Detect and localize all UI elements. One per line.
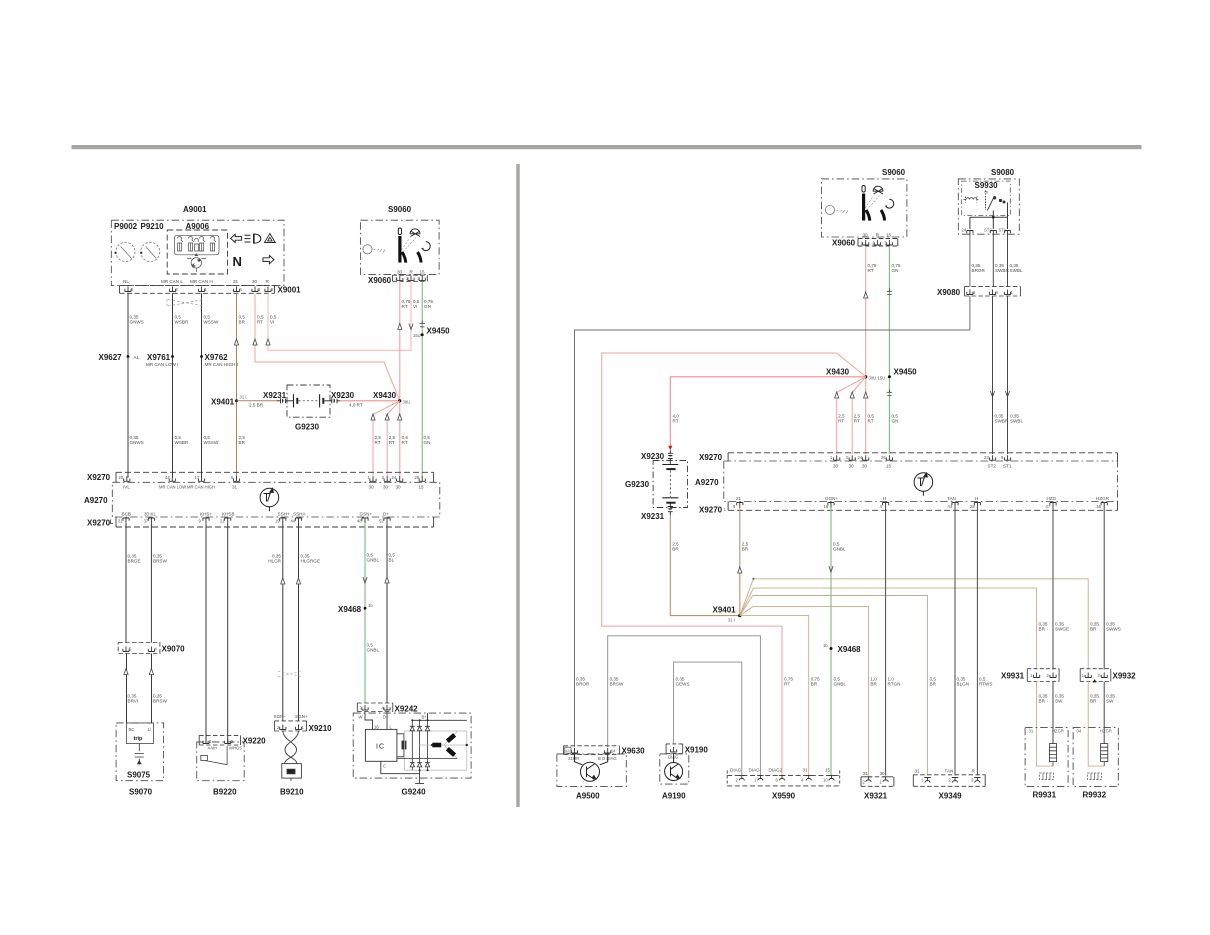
- svg-text:X9001: X9001: [278, 286, 302, 295]
- wire 0.75 GN (S9060-3 to X9270): [421, 281, 423, 477]
- X9210 pin names: [274, 714, 308, 719]
- svg-text:21: 21: [736, 496, 742, 501]
- svg-text:30 KL: 30 KL: [144, 512, 156, 517]
- X9080 pins: [967, 290, 1011, 295]
- svg-text:1b: 1b: [368, 603, 373, 608]
- svg-text:SW: SW: [1055, 699, 1063, 704]
- svg-text:HZGR: HZGR: [1100, 729, 1112, 734]
- svg-text:31: 31: [803, 768, 809, 773]
- svg-text:20: 20: [119, 475, 124, 480]
- svg-text:31: 31: [863, 771, 869, 776]
- svg-text:15: 15: [825, 768, 831, 773]
- svg-text:SWBR: SWBR: [995, 268, 1009, 273]
- wire label 0.5 RTWS (X9349): [979, 677, 992, 687]
- S9930 coil symbol: [964, 197, 979, 203]
- S9060 ignition switch symbol: [363, 228, 430, 263]
- X9430 fan to stub 2.5 RT b: [387, 401, 400, 478]
- svg-text:X9270: X9270: [699, 453, 723, 462]
- svg-text:X9231: X9231: [641, 512, 665, 521]
- connector X9231 (right) plug symbol: [668, 504, 673, 516]
- wire label 0.75 RT: [868, 263, 877, 273]
- switch unit S9060 (left) box: [360, 220, 439, 274]
- svg-text:16: 16: [374, 725, 379, 730]
- wire label 0.5 VI (S9060): [413, 299, 420, 309]
- svg-text:RT: RT: [854, 419, 860, 424]
- direction arrow on RT: [864, 292, 868, 298]
- connector X9931 box: [1027, 669, 1059, 682]
- X9190 pin: [671, 747, 677, 752]
- X9060 (right) pin numbers: [861, 241, 888, 246]
- svg-text:43: 43: [948, 504, 953, 509]
- X9430 branch wire to X9230 (4.0 RT): [670, 377, 865, 447]
- svg-text:55: 55: [1097, 504, 1102, 509]
- direction arrow on RT wire: [253, 339, 257, 345]
- svg-text:43: 43: [566, 749, 570, 753]
- svg-text:14: 14: [611, 749, 616, 754]
- svg-text:SWBR: SWBR: [995, 419, 1009, 424]
- direction arrow on BR wire: [234, 339, 238, 345]
- wire label 0.35 BROR (A9500): [576, 677, 590, 687]
- svg-text:WSBR: WSBR: [175, 320, 189, 325]
- wire label 0.35 HLGRGE: [301, 554, 320, 564]
- svg-text:19: 19: [275, 519, 280, 524]
- X9070 pins: [123, 647, 155, 652]
- direction arrows on SWBR/SWBL: [990, 391, 994, 397]
- wire 0.35 SWWS (X9270-55 to X9932): [1103, 508, 1105, 670]
- gauge P9002: [116, 242, 135, 261]
- svg-text:04: 04: [1077, 729, 1082, 734]
- label 0.35 SW: [1055, 694, 1064, 704]
- heated grip R9932 box: [1073, 728, 1118, 787]
- wire 0.5 VI (X9001-R to S9060-2): [268, 281, 411, 350]
- node X9468 (right): [830, 647, 833, 650]
- X9270 (left) bottom pins: [123, 518, 390, 523]
- wire label 0.5 VI (upper): [270, 315, 277, 325]
- wire label 0.35 GNWS (lower): [130, 435, 144, 445]
- wire label 0.5 WSSW (lower): [204, 435, 219, 445]
- svg-text:A9270: A9270: [84, 496, 108, 505]
- connector X9242 strip: [357, 703, 393, 712]
- svg-text:30U: 30U: [869, 376, 877, 381]
- wire BC button a (X9270 to X9070): [125, 523, 128, 723]
- X9270 (right) bottom strip: [728, 502, 1117, 511]
- wire label 2.5 BR (X9231): [672, 542, 679, 552]
- svg-text:WSBR: WSBR: [175, 440, 189, 445]
- svg-text:GN: GN: [424, 304, 431, 309]
- X9001 pin numbers: [131, 287, 274, 292]
- node X9468 (left): [364, 607, 367, 610]
- X9220 pin numbers: [209, 739, 234, 744]
- S9075 switch contact: [135, 744, 144, 765]
- svg-text:26: 26: [415, 475, 420, 480]
- twisted pair marker: [278, 671, 303, 677]
- svg-text:BRVI: BRVI: [128, 699, 139, 704]
- R9932 pin names: [1077, 729, 1112, 734]
- wire label 0.35 BROR: [972, 263, 986, 273]
- svg-text:30: 30: [252, 279, 258, 284]
- X9270 (left) top pins: [124, 476, 426, 481]
- A9006 LCD display: [175, 235, 220, 255]
- svg-text:BRSW: BRSW: [153, 699, 167, 704]
- svg-text:R9932: R9932: [1083, 791, 1107, 800]
- svg-text:2,5 BR: 2,5 BR: [249, 403, 264, 408]
- node X9430 (left): [398, 399, 401, 402]
- svg-text:18: 18: [824, 504, 829, 509]
- stub label 2.5 RT b: [854, 414, 861, 424]
- svg-text:A9001: A9001: [183, 205, 207, 214]
- wire 0.5 RTWS (X9270-28 to X9349): [976, 508, 978, 776]
- wire label 0.35 BLGN (X9349): [957, 677, 970, 687]
- G9240 terminal names: [359, 715, 428, 720]
- svg-text:G9240: G9240: [402, 788, 427, 797]
- headlight indicator icon: [245, 234, 261, 243]
- svg-text:SW: SW: [1106, 699, 1114, 704]
- svg-text:MR CAN H: MR CAN H: [190, 279, 213, 284]
- wire label 0.5 RT: [868, 414, 875, 424]
- svg-text:BR: BR: [811, 682, 818, 687]
- svg-text:GN: GN: [892, 419, 899, 424]
- svg-text:30: 30: [880, 771, 886, 776]
- svg-text:GNBL: GNBL: [833, 547, 846, 552]
- X9001 pins: [125, 287, 271, 292]
- wire label 0.5 GNBL (X9590): [834, 677, 847, 687]
- svg-text:S9060: S9060: [882, 168, 906, 177]
- X9060 (right) pins: [863, 240, 893, 245]
- wire label 0.35 SWGE: [1055, 622, 1069, 632]
- svg-text:47: 47: [1046, 504, 1051, 509]
- svg-text:SWBL: SWBL: [1010, 419, 1023, 424]
- svg-text:D+: D+: [383, 715, 389, 720]
- wire label 0.5 BL: [389, 553, 396, 563]
- top rule bar: [72, 145, 1142, 149]
- G9240 bottom rail: [397, 758, 457, 760]
- svg-text:WSSW: WSSW: [204, 320, 219, 325]
- sensor B9220 box: [197, 742, 245, 781]
- X9401 fan wire to X9590 (0.75 BR): [740, 616, 809, 776]
- wire MR CAN L (X9001-2 to X9270): [172, 293, 174, 477]
- svg-text:24: 24: [858, 455, 863, 460]
- svg-text:30: 30: [383, 485, 389, 490]
- X9242 pins: [362, 705, 390, 710]
- svg-text:48: 48: [357, 519, 362, 524]
- svg-text:BLGN: BLGN: [957, 682, 970, 687]
- node X9401 (right): [738, 614, 741, 617]
- battery G9230 (left) box: [287, 385, 330, 417]
- svg-text:IC: IC: [376, 744, 385, 751]
- svg-text:X9321: X9321: [864, 792, 888, 801]
- wire 2.5 BR (X9231 to X9401): [670, 515, 740, 615]
- wire label 2.5 BR (pin 21): [742, 542, 749, 552]
- svg-text:X9931: X9931: [1001, 672, 1025, 681]
- svg-text:4,0 RT: 4,0 RT: [349, 403, 363, 408]
- wire label 0.35 HLGR: [268, 554, 281, 564]
- X9060 (left) pin names: [397, 270, 425, 275]
- svg-text:15: 15: [420, 270, 426, 275]
- svg-text:trip: trip: [134, 736, 144, 742]
- svg-text:X9450: X9450: [894, 368, 918, 377]
- svg-text:BR: BR: [239, 320, 246, 325]
- svg-text:VI: VI: [270, 320, 274, 325]
- svg-text:GN: GN: [424, 440, 431, 445]
- display unit A9006 box: [167, 230, 227, 274]
- wire label 0.5 WSBR (upper): [175, 315, 189, 325]
- switch unit S9080 box: [958, 179, 1019, 234]
- direction arrow on SW wire: [385, 577, 389, 583]
- X9220 pins: [203, 739, 231, 744]
- svg-text:44: 44: [291, 519, 296, 524]
- svg-text:G9230: G9230: [295, 423, 320, 432]
- B9210 twisted wires: [283, 731, 299, 764]
- X9270 (right) bottom pin names: [736, 496, 1110, 501]
- wire label 1.0 RTGN (X9321): [888, 677, 901, 687]
- G9240 phase lines and diodes: [410, 720, 430, 770]
- X9430 fan stub 2.5 RT a: [837, 377, 866, 454]
- svg-text:X9762: X9762: [205, 353, 229, 362]
- svg-text:B+: B+: [422, 715, 428, 720]
- svg-text:RT: RT: [375, 440, 381, 445]
- S9930 internal wiring: [970, 203, 1008, 230]
- svg-text:SSHA: SSHA: [293, 512, 306, 517]
- X9060 (left) pin numbers: [395, 276, 421, 281]
- svg-text:MR CAN L: MR CAN L: [161, 279, 183, 284]
- S9930 switch contact: [986, 191, 1006, 211]
- svg-text:31MR: 31MR: [568, 756, 579, 761]
- svg-text:30: 30: [369, 485, 375, 490]
- G9240 regulator ground lead: [381, 761, 420, 773]
- svg-text:MR CAN LOW I: MR CAN LOW I: [146, 362, 178, 367]
- connector X9230 (left) plug symbol: [332, 398, 340, 403]
- wire label 0.5 GNBL (upper): [833, 542, 846, 552]
- wire label 0.5 GN: [424, 435, 431, 445]
- X9210 pins: [280, 725, 302, 730]
- wire 0.5 BR (X9001-4 to X9401 to X9270): [236, 293, 238, 477]
- connector X9080 strip: [965, 287, 1021, 296]
- svg-text:S9060: S9060: [388, 205, 412, 214]
- S9080 pins: [967, 231, 1011, 236]
- X9349 pin numbers: [921, 778, 974, 783]
- connector X9230 (right) plug symbol: [668, 450, 673, 461]
- svg-text:N: N: [233, 254, 242, 269]
- svg-text:X9210: X9210: [309, 724, 333, 733]
- svg-text:S9070: S9070: [129, 788, 153, 797]
- svg-text:A9270: A9270: [695, 478, 719, 487]
- wire label 0.5 RT (upper): [257, 315, 264, 325]
- svg-text:BR: BR: [1039, 627, 1046, 632]
- svg-text:X9230: X9230: [641, 452, 665, 461]
- wire label 0.35 GEWS: [676, 677, 690, 687]
- svg-text:RT: RT: [402, 304, 408, 309]
- svg-text:D+: D+: [383, 512, 389, 517]
- svg-text:RT: RT: [868, 419, 874, 424]
- svg-text:28: 28: [970, 504, 975, 509]
- wire SSH+ (X9270 to X9210): [282, 523, 284, 721]
- connector X9590 strip: [727, 771, 840, 786]
- svg-text:BROR: BROR: [576, 682, 590, 687]
- svg-text:KHS+: KHS+: [200, 512, 212, 517]
- svg-text:P9002: P9002: [114, 222, 138, 231]
- svg-text:BR: BR: [1090, 627, 1097, 632]
- svg-text:BR: BR: [742, 547, 749, 552]
- X9401 fan wire to X9349 (0.5 BR): [740, 596, 928, 776]
- R9931 resistor: [1049, 744, 1056, 767]
- svg-text:GSN+: GSN+: [360, 512, 373, 517]
- svg-text:BRSW: BRSW: [610, 682, 624, 687]
- svg-text:SSH+: SSH+: [278, 512, 290, 517]
- svg-text:GNBL: GNBL: [834, 682, 847, 687]
- svg-text:X9349: X9349: [939, 792, 963, 801]
- turn-right indicator icon: [263, 255, 274, 263]
- svg-text:VI: VI: [413, 304, 417, 309]
- wire label 0.75 GN: [892, 263, 901, 273]
- wire 0.35 BR (X9932 to R9932): [1088, 682, 1104, 767]
- wire MR CAN H (X9001-1 to X9270): [201, 293, 203, 477]
- A9270 (left) component symbol: [260, 488, 279, 511]
- svg-text:DIAG2: DIAG2: [769, 768, 783, 773]
- node X9450 (left): [421, 333, 424, 336]
- svg-text:GEWS: GEWS: [676, 682, 690, 687]
- svg-text:MR CAN HIGH I: MR CAN HIGH I: [205, 362, 238, 367]
- svg-text:ST1: ST1: [1003, 464, 1012, 469]
- svg-text:21: 21: [220, 519, 225, 524]
- stub label 2.5 RT a: [838, 414, 845, 424]
- G9240 internal wiring to regulator: [365, 712, 387, 730]
- svg-text:X9220: X9220: [243, 737, 267, 746]
- G9240 regulator IC box: [365, 729, 397, 761]
- svg-text:BRSW: BRSW: [153, 559, 167, 564]
- X9001 pin names: [123, 279, 270, 284]
- battery G9230 (right) box: [653, 461, 687, 508]
- wire label 0.35 SWWS: [1106, 622, 1121, 632]
- svg-text:31 I: 31 I: [240, 395, 247, 400]
- direction arrow on 0.5 RT drop: [398, 414, 402, 420]
- wire label 0.35 SWBR: [995, 263, 1009, 273]
- svg-text:NL: NL: [123, 279, 129, 284]
- X9321 pin numbers: [863, 780, 883, 785]
- svg-text:37: 37: [144, 519, 149, 524]
- X9932 variant marker: [1093, 679, 1097, 682]
- connector X9210 strip: [275, 721, 307, 731]
- svg-text:X9230: X9230: [331, 391, 355, 400]
- svg-text:GN: GN: [892, 268, 899, 273]
- R9931 heater element symbol: [1040, 773, 1054, 780]
- connector X9001 strip: [120, 285, 279, 293]
- svg-text:BR: BR: [870, 682, 877, 687]
- wire label 0.35 BR (R9932 drop): [1090, 622, 1099, 632]
- wire 0.75 RT (S9060-1 to X9430 to X9270): [399, 281, 401, 477]
- svg-text:BRGE: BRGE: [128, 559, 141, 564]
- X9270 (left) bottom pin numbers: [118, 519, 384, 524]
- antenna unit A9500 box: [557, 754, 626, 787]
- wire label 1.0 BR (X9321): [870, 677, 877, 687]
- inline connector mark on GN wire: [420, 321, 425, 327]
- X9590 pins: [739, 775, 835, 780]
- X9070 pin numbers: [129, 647, 158, 652]
- wire 0.35 SW (X9931 to R9931): [1052, 682, 1054, 744]
- wire 0.5 RT (X9001-3 to X9430): [255, 293, 400, 400]
- svg-text:GNBL: GNBL: [367, 648, 380, 653]
- svg-text:SGN+: SGN+: [295, 714, 308, 719]
- svg-text:X9468: X9468: [838, 645, 862, 654]
- wire label 0.35 BRVI: [128, 694, 139, 704]
- svg-text:DIAG: DIAG: [749, 768, 761, 773]
- svg-text:RT: RT: [838, 419, 844, 424]
- svg-text:X9627: X9627: [99, 353, 123, 362]
- direction arrow on GNBL wire: [363, 577, 367, 583]
- svg-text:31: 31: [232, 485, 238, 490]
- connector X9932 box: [1080, 669, 1111, 682]
- control unit A9270 (left) X9270 top strip: [116, 472, 434, 482]
- switch unit S9060 (right) box: [822, 179, 907, 237]
- svg-text:17: 17: [195, 475, 200, 480]
- svg-text:31: 31: [118, 519, 123, 524]
- wire 0.75 GN (S9060 to X9450 to X9270): [888, 246, 890, 454]
- wire 0.35 SWBR (S9080-ST2 to X9080 to A9270): [992, 236, 995, 455]
- wire label 0.5 GN: [892, 414, 899, 424]
- svg-text:SWWS: SWWS: [1106, 627, 1121, 632]
- A9270 (left) box: [112, 482, 440, 517]
- svg-text:15U: 15U: [878, 376, 886, 381]
- X9270 (left) top pin numbers: [119, 475, 420, 480]
- alternator G9240 box: [353, 713, 471, 778]
- X9931 pins: [1034, 673, 1057, 678]
- X9932 pin numbers: [1082, 673, 1101, 678]
- turn-left indicator icon: [231, 234, 242, 242]
- direction arrow on 0.75 RT wire: [398, 324, 402, 330]
- A9500 pin names: [568, 756, 617, 761]
- switch S9930 box: [962, 181, 1011, 215]
- wire 0.35 BR (X9931 to R9931): [1037, 682, 1053, 767]
- svg-text:HLGRGE: HLGRGE: [301, 559, 320, 564]
- svg-text:DIAG: DIAG: [730, 768, 742, 773]
- svg-text:GNBL: GNBL: [367, 558, 380, 563]
- svg-text:RTWS: RTWS: [979, 682, 992, 687]
- direction arrow on VI drop: [409, 324, 413, 330]
- wire BC button b (X9270 to X9070): [150, 523, 152, 723]
- R9931 pin names: [1029, 729, 1064, 734]
- svg-text:GNWS: GNWS: [130, 320, 144, 325]
- svg-text:RT: RT: [389, 440, 395, 445]
- wire label 0.35 BR (X9931 drop): [1039, 622, 1048, 632]
- wire 0.35 BRSW (X9630-2 to X9590): [608, 636, 761, 776]
- node X9627: [127, 355, 130, 358]
- battery G9230 (left) symbol: [289, 394, 333, 407]
- connector X9220 strip: [199, 735, 240, 745]
- svg-text:A9500: A9500: [576, 792, 600, 801]
- wire 0.35 BROR (S9080-24 to X9080 to A9500): [575, 236, 970, 748]
- svg-text:BR: BR: [239, 440, 246, 445]
- connector X9060 (left) strip: [393, 275, 428, 281]
- svg-text:X9270: X9270: [87, 519, 111, 528]
- svg-text:BCB: BCB: [122, 512, 131, 517]
- svg-text:ST2: ST2: [984, 228, 992, 233]
- X9270 (left) top pin names: [123, 485, 424, 490]
- X9270 (right) top pins: [834, 455, 1011, 460]
- svg-text:KHSB: KHSB: [222, 512, 235, 517]
- svg-text:31: 31: [233, 279, 239, 284]
- wire label 0.5 RT: [402, 435, 409, 445]
- svg-text:15: 15: [419, 485, 425, 490]
- connector X9630 strip: [564, 746, 620, 755]
- node X9401 (left): [235, 399, 238, 402]
- svg-text:24: 24: [962, 228, 967, 233]
- svg-text:H: H: [883, 496, 886, 501]
- svg-text:ST1: ST1: [999, 228, 1007, 233]
- svg-text:31: 31: [1029, 729, 1034, 734]
- svg-text:B9210: B9210: [280, 788, 304, 797]
- svg-text:X9190: X9190: [685, 746, 709, 755]
- svg-text:10: 10: [823, 778, 828, 783]
- svg-text:W: W: [359, 715, 363, 720]
